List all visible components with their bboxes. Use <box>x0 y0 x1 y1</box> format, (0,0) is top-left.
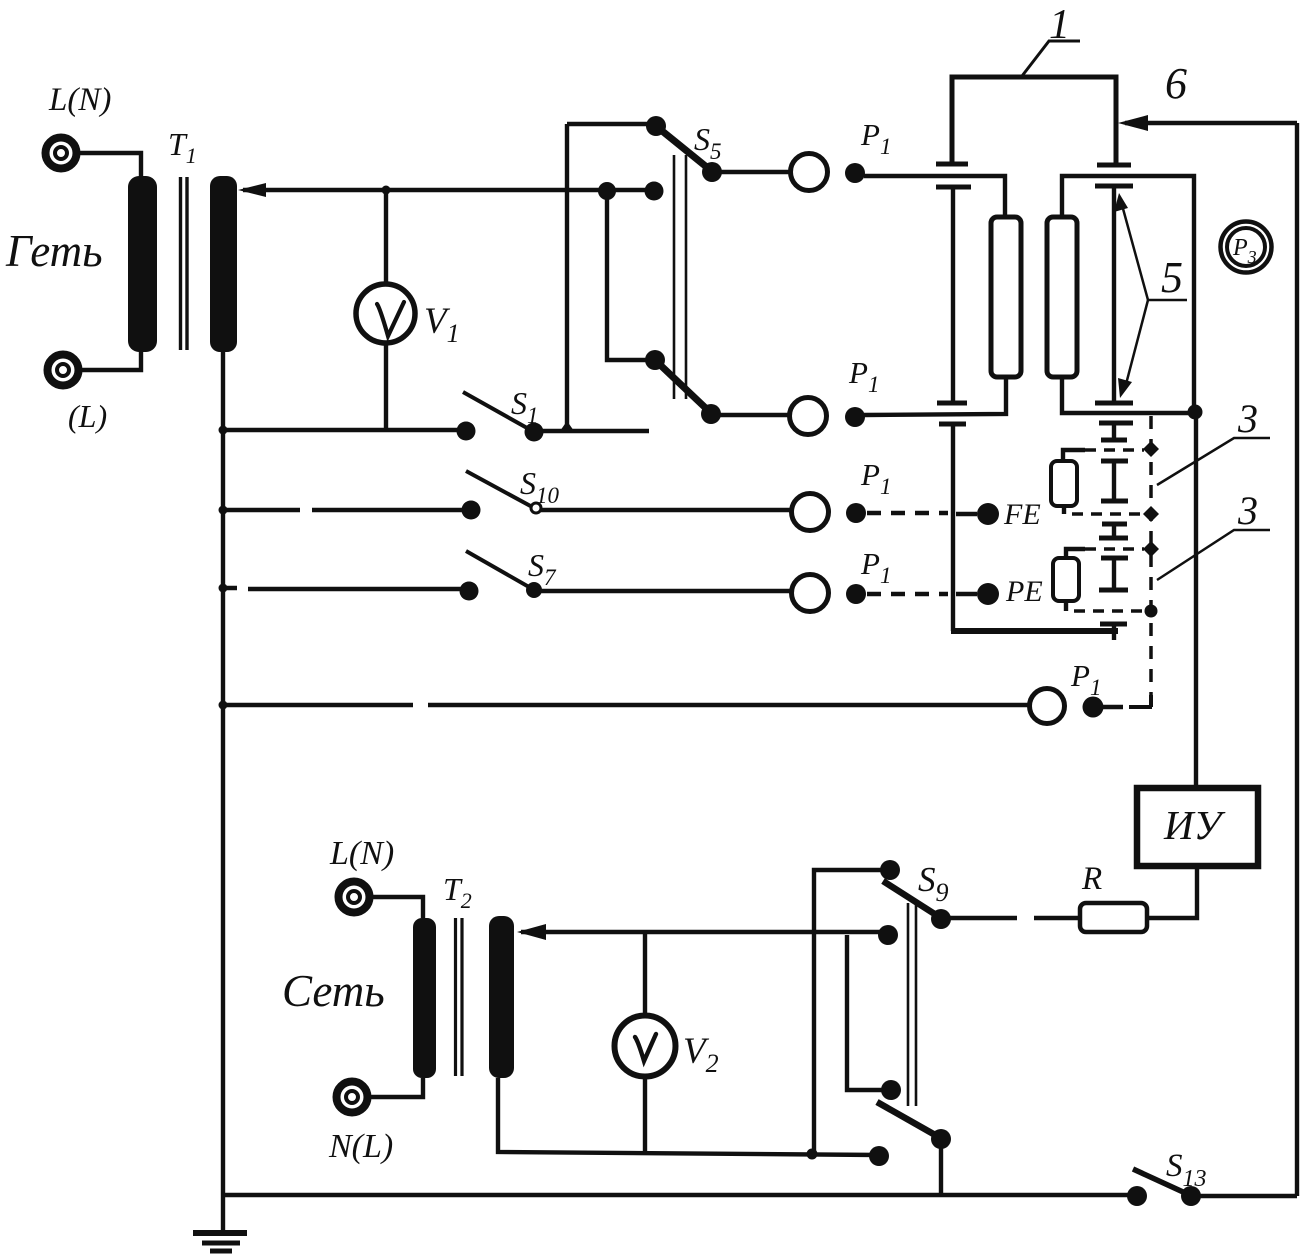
svg-text:1: 1 <box>1049 2 1070 48</box>
svg-text:Геть: Геть <box>5 226 103 276</box>
svg-text:FE: FE <box>1003 498 1041 531</box>
svg-text:ИУ: ИУ <box>1163 802 1226 848</box>
svg-text:(L): (L) <box>68 398 107 434</box>
svg-text:N(L): N(L) <box>328 1128 393 1165</box>
svg-text:Сеть: Сеть <box>282 966 385 1016</box>
svg-text:6: 6 <box>1165 59 1187 108</box>
svg-text:L(N): L(N) <box>329 835 394 872</box>
svg-text:3: 3 <box>1237 488 1258 533</box>
svg-text:5: 5 <box>1161 253 1183 302</box>
svg-text:L(N): L(N) <box>48 82 111 118</box>
svg-text:R: R <box>1081 861 1102 897</box>
svg-text:PE: PE <box>1005 575 1043 608</box>
svg-text:3: 3 <box>1237 396 1258 441</box>
